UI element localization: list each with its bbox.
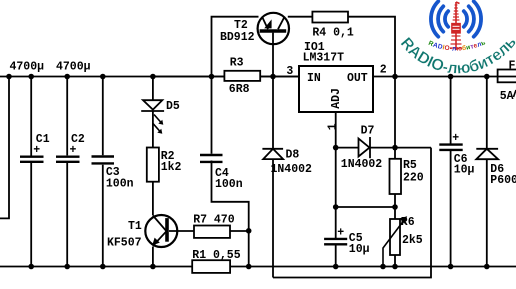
svg-text:R6: R6 [401, 216, 415, 229]
wire C6 branch [450, 77, 452, 144]
junction C1 top [28, 74, 34, 80]
wire D6 branch [486, 77, 488, 149]
svg-text:KF507: KF507 [107, 237, 142, 250]
svg-text:R7 470: R7 470 [193, 213, 235, 226]
logo tower [450, 2, 462, 50]
LED D5 [141, 100, 164, 111]
LED D5 arrows [153, 115, 162, 133]
diode D8 [262, 149, 283, 159]
IC IO1 LM317T regulator [299, 66, 373, 112]
svg-text:1N4002: 1N4002 [271, 163, 313, 176]
svg-text:4700µ: 4700µ [10, 61, 45, 74]
svg-text:+: + [452, 132, 459, 145]
capacitor C1 [20, 157, 44, 162]
resistor R4 [312, 12, 348, 23]
wire ADJ row y207 [336, 206, 395, 208]
svg-text:+: + [337, 227, 344, 240]
capacitor C4 [200, 155, 223, 162]
junction R6 bottom [392, 264, 398, 270]
svg-text:100n: 100n [215, 178, 243, 191]
wire R6 bottom [394, 255, 396, 267]
svg-text:+: + [70, 144, 77, 157]
svg-text:F: F [509, 59, 516, 72]
junction T2 base D8 rail [270, 74, 276, 80]
wire D8 return path [273, 148, 431, 278]
wire out vertical to R5 [394, 77, 396, 159]
wire ADJ down [335, 112, 337, 238]
capacitor C2 [56, 157, 80, 162]
wire D8 branch [272, 77, 274, 149]
junction R6 wiper bottom [380, 264, 386, 270]
svg-text:D7: D7 [361, 125, 375, 138]
svg-text:4700µ: 4700µ [56, 61, 91, 74]
logo radio waves left [431, 1, 481, 36]
wire T2 base down [272, 33, 274, 77]
svg-text:100n: 100n [106, 178, 134, 191]
junction C6 bottom [448, 264, 454, 270]
capacitor C6 [439, 145, 462, 150]
junction C3 bottom [100, 264, 106, 270]
wire D7 row [336, 147, 359, 149]
svg-text:2k5: 2k5 [402, 234, 423, 247]
svg-text:R1 0,55: R1 0,55 [192, 249, 240, 262]
junction R4 out rail [392, 74, 398, 80]
diode D7 [359, 137, 371, 158]
svg-text:10µ: 10µ [349, 243, 370, 256]
junction C2 bottom [64, 264, 70, 270]
wire D5 R2 T1 branch [152, 77, 154, 101]
svg-text:220: 220 [403, 172, 424, 185]
svg-text:1k2: 1k2 [161, 161, 182, 174]
resistor R1 [192, 260, 230, 273]
junction R7 right C4 [246, 228, 252, 234]
transistor T2 [258, 13, 289, 44]
wire output rail [373, 76, 516, 78]
junction C2 top [64, 74, 70, 80]
junction C6 top [448, 74, 454, 80]
svg-text:R4 0,1: R4 0,1 [312, 27, 354, 40]
junction C1 bottom [28, 264, 34, 270]
wire C3 branch [102, 77, 104, 156]
wire R5 to R6 [394, 194, 396, 219]
wire top input rail [0, 76, 299, 78]
capacitor C5 [324, 239, 347, 244]
svg-text:R3: R3 [230, 57, 244, 70]
svg-text:OUT: OUT [347, 72, 368, 85]
junction R5 R6 [392, 204, 398, 210]
junction C4 T2 top [209, 74, 215, 80]
node D7 right R5 junction [392, 145, 398, 151]
junction D6 top [484, 74, 490, 80]
svg-text:R5: R5 [403, 159, 417, 172]
resistor R3 [224, 71, 260, 81]
resistor R5 [390, 159, 402, 194]
svg-text:10µ: 10µ [454, 164, 475, 177]
diode D6 [476, 149, 498, 159]
wire bottom ground rail left [0, 266, 192, 268]
node ADJ D7 left junction [333, 145, 339, 151]
junction D5 branch top [150, 74, 156, 80]
svg-text:5A: 5A [500, 90, 514, 103]
capacitor C3 [92, 157, 115, 164]
svg-text:D5: D5 [166, 100, 180, 113]
junction C5 row left [333, 204, 339, 210]
wire C2 branch [66, 77, 68, 156]
svg-text:D8: D8 [286, 149, 300, 162]
junction C5 bottom [333, 264, 339, 270]
svg-text:3: 3 [286, 65, 293, 78]
transistor T1 [145, 215, 177, 247]
junction C3 top [100, 74, 106, 80]
svg-text:ADJ: ADJ [330, 88, 343, 109]
junction input corner top rail [6, 74, 12, 80]
wire R4 right corner down to out rail [348, 17, 395, 77]
svg-text:+: + [33, 144, 40, 157]
junction R7 branch bottom [246, 264, 252, 270]
wire left input stub [0, 77, 9, 219]
wire C1 branch [30, 77, 32, 156]
svg-text:BD912: BD912 [220, 31, 255, 44]
svg-text:2: 2 [380, 64, 387, 77]
svg-text:1: 1 [326, 123, 339, 130]
wire T2 right to R4 [288, 16, 313, 18]
junction T1 emitter bottom [150, 264, 156, 270]
logo radio waves right [474, 1, 481, 36]
resistor R7 [194, 226, 230, 238]
junction D6 bottom [484, 264, 490, 270]
svg-text:6R8: 6R8 [229, 83, 250, 96]
wire C4 bottom L to R7 junction [212, 161, 249, 267]
wire C5 bottom [335, 246, 337, 267]
svg-text:IN: IN [307, 72, 321, 85]
svg-text:T1: T1 [128, 220, 142, 233]
svg-text:1N4002: 1N4002 [341, 158, 383, 171]
wire T2 top left + C4 branch [153, 76, 299, 78]
fuse F [498, 70, 516, 83]
wire bottom ground rail right [230, 266, 516, 268]
wire R7 leads [169, 230, 194, 232]
svg-text:LM317T: LM317T [303, 51, 345, 64]
trimmer R6 [390, 219, 400, 255]
resistor R2 [147, 148, 159, 182]
svg-text:P600: P600 [490, 174, 516, 187]
